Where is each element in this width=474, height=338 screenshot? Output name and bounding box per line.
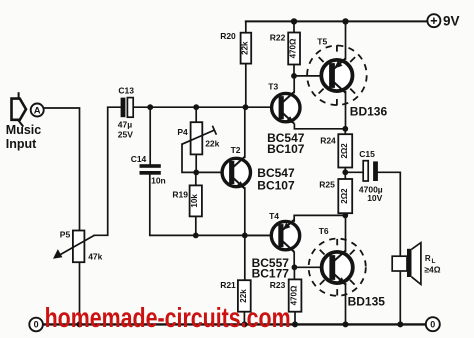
junction R23 bottom on ground rail [292,321,298,327]
wire T3 collector [293,76,295,93]
wire R19 bottom lead [195,216,197,235]
svg-text:22k: 22k [239,289,248,303]
junction T3 base / R20 [243,104,249,110]
junction P4 top on input node [193,104,199,110]
junction R25 bottom / T4 emitter / T6 collector [342,213,348,219]
junction P5 bottom on ground rail [77,321,83,327]
wire R21 top lead [244,235,246,280]
svg-text:2Ω2: 2Ω2 [340,143,349,159]
svg-text:C14: C14 [131,154,147,164]
svg-text:R22: R22 [270,32,286,42]
svg-text:Music: Music [6,123,41,137]
preset P4 [177,122,219,154]
wire top supply rail [246,20,427,22]
resistor R25 [319,179,352,213]
capacitor C15 [359,149,383,203]
wire T5 emitter to rail [345,21,347,58]
transistor T4 [269,211,300,252]
wire T5 collector down to node [345,92,347,129]
svg-text:0: 0 [430,320,435,330]
svg-text:25V: 25V [118,130,133,140]
wire C15 to speaker branch [378,172,400,256]
transistor T3 [268,82,300,124]
junction R22 top on supply rail [291,18,297,24]
junction R24 / R25 / C15 output node [342,169,348,175]
wire R23 bottom lead [294,312,296,325]
wire P4 wiper tie-down [182,144,196,172]
wire R22 bottom lead [293,65,295,76]
wire T2 base [196,171,228,173]
wire C14 top lead [149,107,151,164]
svg-text:0: 0 [34,320,39,330]
svg-text:R: R [425,254,431,263]
wire T2 emitter down to node [244,188,246,235]
resistor R23 [270,279,302,311]
svg-text:470Ω: 470Ω [289,38,298,58]
junction speaker on ground rail [397,321,403,327]
svg-text:T5: T5 [317,37,327,47]
svg-text:≥4Ω: ≥4Ω [424,265,440,275]
svg-text:R19: R19 [172,190,188,200]
terminal A (input) [31,104,44,117]
wire node to C15 [345,171,363,173]
wire T4 collector down [293,253,295,268]
svg-text:9V: 9V [443,14,460,29]
wire T4 emitter up to output node [294,215,345,221]
capacitor C14 [131,154,166,185]
svg-text:BC107: BC107 [257,179,295,193]
resistor R22 [270,32,300,64]
svg-text:470Ω: 470Ω [290,285,299,305]
terminal 0 right [426,317,440,331]
wire T2 collector up to node [244,107,246,157]
svg-text:R25: R25 [319,180,335,190]
svg-text:BD136: BD136 [350,104,388,118]
svg-text:BC107: BC107 [267,142,305,156]
heatsink dashed circle for T6 [309,239,366,296]
svg-text:T2: T2 [231,145,241,155]
wire T6 collector up to node [345,215,347,250]
svg-text:Input: Input [6,137,37,151]
wire input node horizontal (C13 to T3 base) [133,106,277,108]
svg-text:BD135: BD135 [348,294,386,308]
terminal +9V [427,14,459,29]
wire P4 top lead [195,107,197,122]
svg-text:R24: R24 [320,135,336,145]
junction T5 emitter on supply rail [342,18,348,24]
transistor T6 [319,226,386,308]
svg-text:C13: C13 [118,86,134,96]
svg-text:R20: R20 [220,31,236,41]
speaker RL [392,243,441,285]
junction C14 tap on input node [147,104,153,110]
junction R22 bottom / T5 base / T3 collector [291,73,297,79]
svg-text:P4: P4 [177,127,188,137]
wire T6 emitter to ground rail [345,284,347,324]
wire P4 bottom lead [195,154,197,172]
junction R19 bottom / C14 [193,233,199,239]
potentiometer P5 [53,229,103,262]
svg-text:T6: T6 [319,226,329,236]
svg-text:47µ: 47µ [118,119,132,129]
heatsink dashed circle for T5 [307,45,367,105]
capacitor C13 [118,86,134,140]
wire R25 top lead [344,172,346,179]
wire from A terminal to P5 top [44,108,80,231]
svg-text:homemade-circuits.com: homemade-circuits.com [45,302,291,333]
junction T4 collector / R23 / T6 base [292,264,298,270]
resistor R24 [320,134,352,167]
transistor T2 [222,145,250,189]
terminal 0 left [29,318,43,332]
wire R22 top lead [293,21,295,32]
resistor R21 [220,280,251,312]
wire node to T6 base [294,266,328,268]
wire R25 bottom lead [344,213,346,215]
wire T4 base [245,234,277,236]
wire R20 bottom lead to node [245,64,247,108]
wire R19 top lead [195,172,197,185]
svg-text:47k: 47k [88,251,102,261]
svg-text:C15: C15 [359,149,375,159]
svg-text:P5: P5 [60,229,71,239]
junction T2 emitter / T4 base / R21 [242,233,248,239]
wire T3 emitter to R24 top node [294,125,345,129]
svg-text:T3: T3 [268,82,278,92]
transistor T5 [317,37,387,119]
svg-text:22k: 22k [205,139,219,149]
wire speaker bottom to ground rail [399,271,401,324]
wire R23 top lead [293,267,295,279]
resistor R20 [220,31,251,64]
wire R24 bottom lead [344,168,346,173]
junction P4 wiper / R19 top / T2 base [193,170,199,176]
junction T6 emitter on ground rail [343,321,349,327]
wire C13 left plate to P5 wiper [94,107,121,235]
wire C14 bottom lead to feedback node [150,175,277,236]
svg-text:10V: 10V [367,193,382,203]
wire bottom ground rail [43,323,426,325]
wire R20 top lead [245,21,247,32]
svg-text:A: A [34,106,41,117]
svg-text:10n: 10n [151,175,166,185]
svg-text:BC177: BC177 [252,266,290,280]
svg-text:R21: R21 [220,280,236,290]
input jack symbol [12,92,27,126]
wire R21 bottom lead [243,312,245,325]
svg-text:22k: 22k [241,41,250,55]
wire R24 top lead [344,129,346,134]
svg-text:T4: T4 [269,211,279,221]
junction T5 collector / R24 / T3 emitter [342,126,348,132]
wire P5 bottom lead to ground rail [79,262,81,324]
svg-text:2Ω2: 2Ω2 [340,188,349,204]
junction R21 bottom on ground rail [241,321,247,327]
resistor R19 [172,185,202,216]
svg-text:R23: R23 [270,280,286,290]
wire node to T5 base [294,75,328,77]
svg-text:10k: 10k [190,194,199,208]
